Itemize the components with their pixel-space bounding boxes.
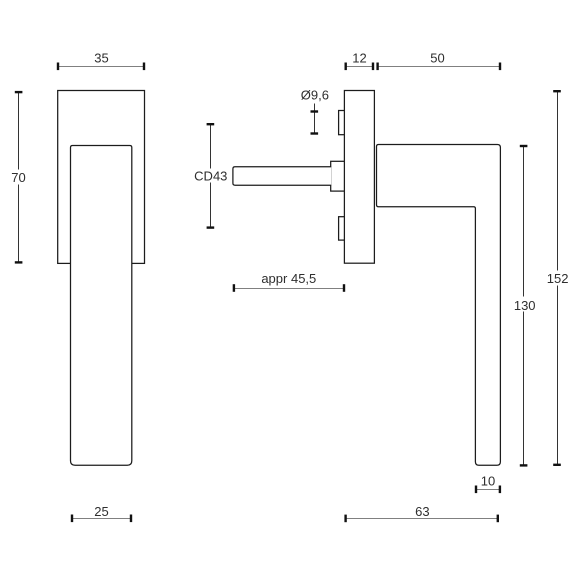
dim 70 left bbox=[18, 92, 20, 262]
rose plate side bbox=[344, 91, 374, 264]
svg-text:appr 45,5: appr 45,5 bbox=[261, 271, 316, 286]
dim 152 right bbox=[557, 91, 559, 465]
dim CD43 bbox=[210, 124, 212, 227]
dim 35 top-left bbox=[58, 66, 144, 68]
dim 63 bottom bbox=[346, 518, 498, 520]
dim Ø9,6 bbox=[314, 104, 316, 135]
dim 130 bbox=[523, 146, 525, 465]
dim 10 bottom bbox=[476, 489, 500, 491]
svg-text:Ø9,6: Ø9,6 bbox=[301, 88, 329, 103]
top fixing lug bbox=[339, 111, 346, 135]
spindle collar bbox=[331, 161, 346, 191]
dim 25 bottom-left bbox=[72, 518, 131, 520]
svg-text:10: 10 bbox=[481, 474, 495, 489]
handle arm + down tube bbox=[377, 145, 501, 466]
svg-text:12: 12 bbox=[352, 51, 366, 66]
svg-text:35: 35 bbox=[94, 51, 108, 66]
handle grip front (covers rose bottom edge) bbox=[71, 146, 132, 466]
svg-text:63: 63 bbox=[415, 504, 429, 519]
dim appr 45,5 bbox=[234, 288, 344, 290]
rose plate front bbox=[58, 91, 145, 264]
dim 50 top bbox=[378, 66, 500, 68]
svg-text:25: 25 bbox=[94, 504, 108, 519]
svg-text:50: 50 bbox=[430, 51, 444, 66]
dim 12 top bbox=[346, 66, 373, 68]
svg-text:CD43: CD43 bbox=[194, 168, 227, 183]
svg-text:70: 70 bbox=[11, 170, 25, 185]
svg-text:130: 130 bbox=[514, 298, 536, 313]
bottom fixing lug bbox=[339, 217, 346, 240]
spindle bar bbox=[233, 167, 331, 185]
svg-text:152: 152 bbox=[547, 271, 569, 286]
